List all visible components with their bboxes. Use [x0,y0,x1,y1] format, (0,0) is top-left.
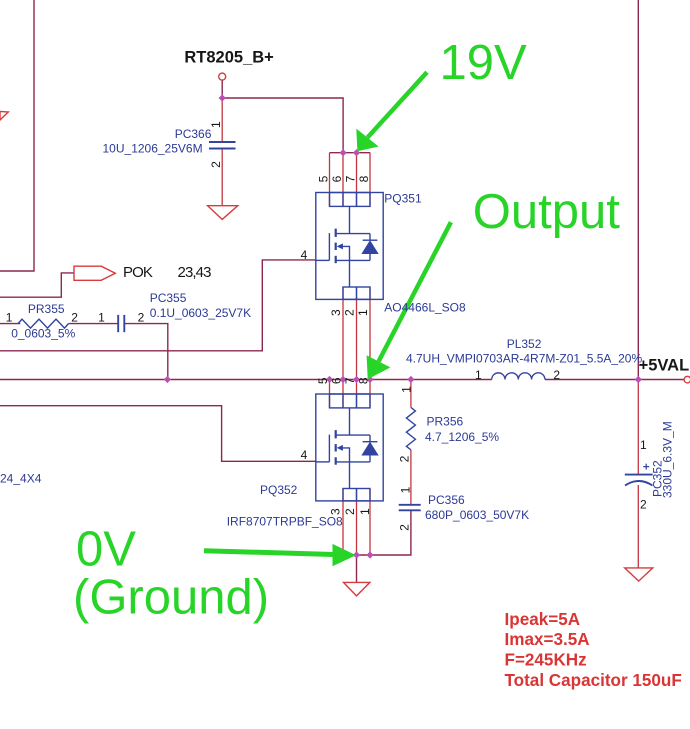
svg-text:8: 8 [357,175,371,182]
svg-text:2: 2 [343,309,357,316]
svg-text:0_0603_5%: 0_0603_5% [11,327,75,341]
svg-text:0.1U_0603_25V7K: 0.1U_0603_25V7K [150,306,251,320]
svg-text:F=245KHz: F=245KHz [505,650,587,669]
svg-text:PC366: PC366 [175,127,212,141]
svg-text:IRF8707TRPBF_SO8: IRF8707TRPBF_SO8 [227,515,343,529]
svg-text:1: 1 [6,311,13,325]
svg-text:4.7_1206_5%: 4.7_1206_5% [425,430,499,444]
svg-text:1: 1 [399,486,413,493]
svg-text:1: 1 [399,386,413,393]
svg-text:24_4X4: 24_4X4 [0,472,42,486]
svg-text:PQ352: PQ352 [260,483,298,497]
svg-text:23,43: 23,43 [178,264,212,281]
svg-text:2: 2 [640,498,647,512]
svg-text:+5VAL: +5VAL [639,356,690,374]
svg-text:330U_6.3V_M: 330U_6.3V_M [661,421,675,498]
svg-text:RT8205_B+: RT8205_B+ [184,49,273,67]
svg-text:2: 2 [71,311,78,325]
svg-text:Ipeak=5A: Ipeak=5A [505,610,581,629]
svg-text:1: 1 [475,368,482,382]
svg-text:1: 1 [356,309,370,316]
svg-text:2: 2 [343,508,357,515]
svg-text:10U_1206_25V6M: 10U_1206_25V6M [103,141,203,155]
svg-text:Imax=3.5A: Imax=3.5A [505,630,590,649]
svg-text:PR355: PR355 [28,302,65,316]
svg-text:4.7UH_VMPI0703AR-4R7M-Z01_5.5A: 4.7UH_VMPI0703AR-4R7M-Z01_5.5A_20% [406,351,642,365]
svg-text:3: 3 [329,309,343,316]
svg-text:PQ351: PQ351 [384,192,422,206]
svg-text:(Ground): (Ground) [73,570,269,624]
svg-text:AO4466L_SO8: AO4466L_SO8 [384,301,466,315]
svg-text:2: 2 [209,161,223,168]
svg-text:PC356: PC356 [428,493,465,507]
svg-text:7: 7 [343,377,357,384]
svg-text:6: 6 [330,175,344,182]
svg-text:7: 7 [344,175,358,182]
svg-text:1: 1 [358,508,372,515]
svg-text:680P_0603_50V7K: 680P_0603_50V7K [425,508,529,522]
svg-text:6: 6 [330,377,344,384]
svg-text:Output: Output [473,185,620,239]
svg-text:5: 5 [317,175,331,182]
svg-text:0V: 0V [76,523,136,577]
svg-text:2: 2 [553,368,560,382]
svg-text:1: 1 [98,311,105,325]
svg-text:1: 1 [640,438,647,452]
svg-text:PC355: PC355 [150,291,187,305]
svg-text:PR356: PR356 [427,415,464,429]
svg-text:Total Capacitor 150uF: Total Capacitor 150uF [505,671,682,690]
svg-text:5: 5 [316,377,330,384]
svg-text:8: 8 [357,377,371,384]
svg-text:2: 2 [398,455,412,462]
svg-text:2: 2 [138,311,145,325]
svg-text:PL352: PL352 [507,337,542,351]
svg-text:2: 2 [397,524,411,531]
svg-text:4: 4 [301,448,308,462]
svg-text:19V: 19V [440,36,528,90]
svg-text:4: 4 [301,248,308,262]
svg-text:POK: POK [123,264,153,281]
